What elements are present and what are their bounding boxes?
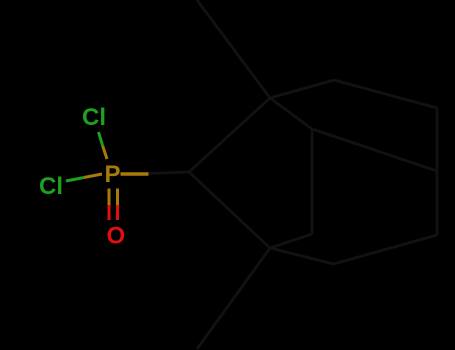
bond Cl2-P (green half) (66, 178, 84, 182)
cage bond C2 up-left (clipped at top) (197, 0, 270, 98)
double bond P=O line 2 olive (116, 189, 119, 206)
bond P-C1 (dark carbon half) (149, 172, 190, 174)
double bond P=O line 2 red (116, 205, 119, 220)
svg-text:Cl: Cl (82, 104, 106, 131)
svg-text:P: P (105, 161, 121, 188)
double bond P=O line 1 olive (108, 189, 111, 206)
bond Cl1-P (green half) (99, 132, 103, 146)
bond Cl2-P (olive half) (84, 174, 102, 178)
cage bond C4-C5 (down-right to right side) (334, 80, 437, 108)
bond P-C1 (olive half) (121, 172, 149, 176)
svg-text:Cl: Cl (39, 173, 63, 200)
cage bond C1-C2 (up-right) (189, 98, 270, 172)
svg-text:O: O (107, 222, 126, 249)
cage bond C1-C3 (down-right) (189, 172, 270, 248)
bond Cl1-P (olive half) (103, 146, 107, 159)
cage bond C3 down-left (clipped at bottom) (197, 248, 270, 349)
cage bond C8-C10 (inner diagonal to right-edge midpoint) (312, 129, 437, 171)
cage bond C7-C3 (bottom left shallow) (270, 248, 334, 264)
double bond P=O line 1 red (108, 205, 111, 220)
cage bond C2-C8 (short inner) (270, 98, 312, 129)
cage bond C2-C4 (shallow up-right) (270, 80, 334, 98)
cage bond C6-C7 (bottom right) (334, 235, 438, 264)
cage bond right vertical C5-C6 (436, 108, 439, 235)
cage bond C3-C9 (short inner) (270, 234, 312, 248)
cage bond inner vertical C8-C9 (311, 129, 314, 234)
